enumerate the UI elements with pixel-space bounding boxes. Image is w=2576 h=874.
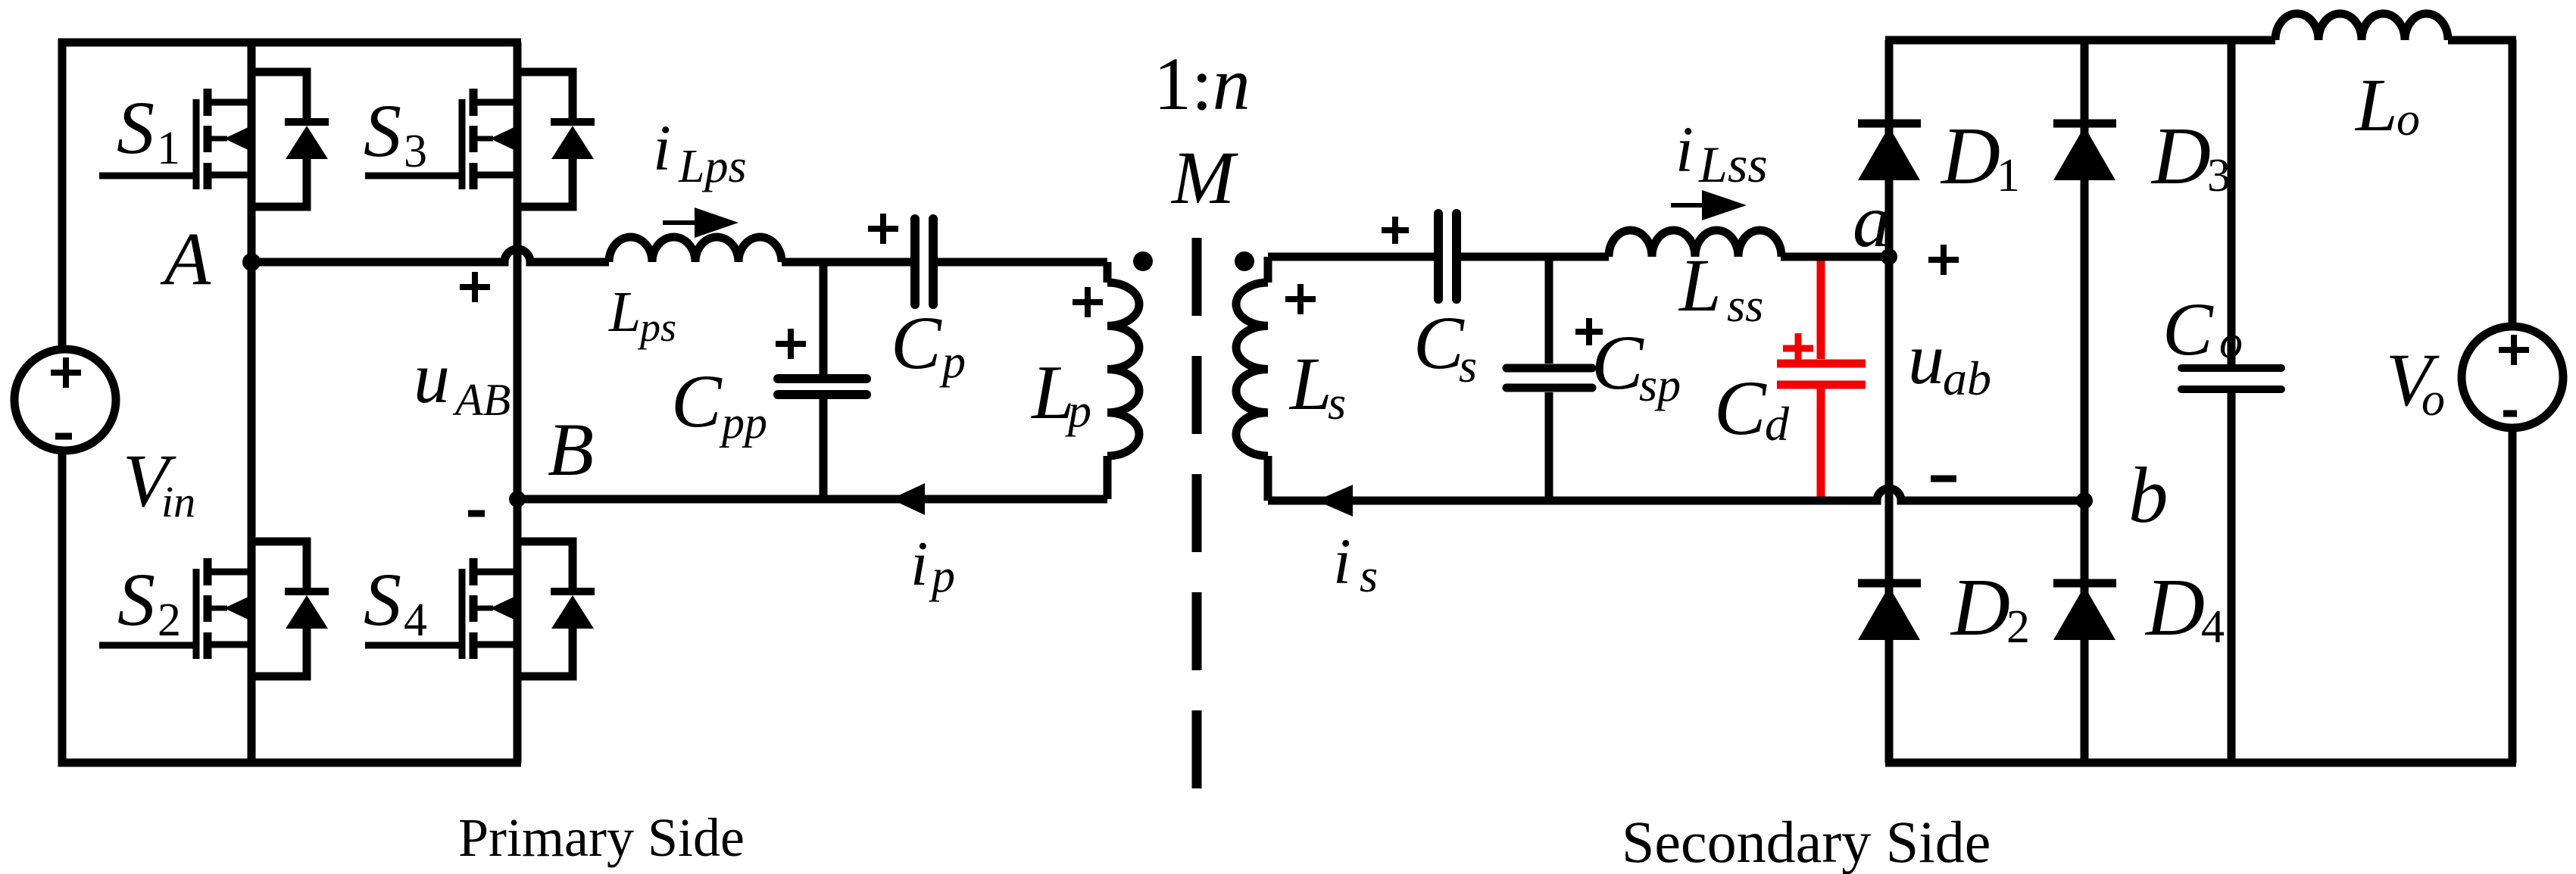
svg-text:i: i [1675, 113, 1694, 186]
svg-text:D: D [1940, 111, 2000, 201]
svg-text:S: S [364, 557, 401, 641]
svg-text:o: o [2421, 374, 2445, 426]
uAB + polarity [460, 272, 490, 302]
svg-text:C: C [1714, 365, 1767, 451]
Cp + polarity [868, 214, 898, 244]
svg-text:o: o [2219, 317, 2243, 368]
svg-text:p: p [929, 551, 955, 602]
svg-text:1: 1 [157, 123, 180, 174]
svg-text:C: C [1591, 320, 1644, 406]
svg-text:b: b [2128, 451, 2169, 539]
svg-text:A: A [160, 217, 211, 301]
transformer primary dot [1133, 251, 1153, 271]
svg-text:D: D [2150, 111, 2211, 201]
wire: node A to Lps with hop over S3 leg [251, 249, 609, 262]
voltage source Vo circle [2462, 326, 2563, 428]
svg-text:D: D [1950, 563, 2010, 653]
capacitor Cs plates [1434, 214, 1443, 299]
svg-text:AB: AB [452, 375, 511, 425]
svg-text:3: 3 [404, 126, 427, 177]
svg-text:C: C [2162, 287, 2214, 371]
node A junction dot [242, 253, 261, 271]
wire: Lss to node a [1781, 253, 1889, 261]
svg-text:M: M [1170, 136, 1238, 220]
inductor Lp transformer primary winding [1104, 262, 1112, 282]
iLss current arrow [1671, 203, 1708, 208]
transformer coupling dashed line [1192, 238, 1202, 788]
wire: input left rail top and bridge top rail [62, 42, 521, 349]
wire: D3-D4 leg [2081, 40, 2089, 763]
svg-text:sp: sp [1639, 360, 1681, 411]
svg-text:2: 2 [2006, 601, 2030, 653]
capacitor Co stem top [2228, 40, 2236, 364]
wire: rectifier top rail right of Lo [2448, 36, 2516, 45]
capacitor Cpp plates [778, 374, 866, 383]
capacitor Csp stem top [1545, 257, 1553, 364]
svg-text:ab: ab [1943, 351, 1991, 405]
svg-text:C: C [891, 301, 942, 385]
svg-text:S: S [364, 89, 401, 173]
voltage source Vin circle [14, 349, 116, 451]
uab + polarity [1928, 245, 1959, 275]
Cd + polarity (red) [1783, 333, 1813, 364]
transformer secondary dot [1235, 251, 1254, 271]
svg-text:3: 3 [2207, 150, 2231, 201]
transistor S2 MOSFET [99, 542, 329, 676]
capacitor Co plates [2181, 364, 2281, 372]
svg-text:4: 4 [2201, 601, 2225, 653]
svg-text:L: L [2354, 63, 2398, 147]
node a junction dot [1881, 248, 1897, 265]
transistor S1 MOSFET [99, 72, 329, 207]
inductor Ls transformer secondary winding [1264, 257, 1272, 282]
Vo + polarity [2499, 335, 2529, 365]
svg-text:Lss: Lss [1698, 136, 1768, 193]
Vin + polarity [51, 357, 81, 388]
svg-text:Primary Side: Primary Side [458, 807, 745, 868]
Vin - polarity [55, 433, 72, 440]
svg-text:s: s [1459, 341, 1477, 392]
capacitor Cd stem top (red) [1817, 253, 1825, 359]
svg-text:a: a [1853, 179, 1891, 263]
svg-text:o: o [2396, 94, 2420, 145]
svg-text:s: s [1328, 378, 1346, 429]
is current arrow [1316, 485, 1353, 517]
svg-text:C: C [1413, 301, 1465, 385]
transistor S3 MOSFET [365, 72, 595, 207]
diode D2 [1858, 579, 1921, 588]
svg-text:pp: pp [719, 398, 767, 448]
diode D3 [2053, 120, 2116, 128]
svg-text:u: u [414, 337, 450, 418]
svg-text:d: d [1765, 397, 1790, 451]
capacitor Csp plates [1507, 364, 1592, 373]
node B junction dot [509, 491, 526, 507]
svg-text:B: B [548, 407, 594, 492]
uAB - polarity [468, 510, 485, 517]
svg-text:i: i [653, 111, 671, 184]
capacitor Cp plates [910, 219, 920, 304]
wire: input left rail bottom and bridge bottom rail [62, 451, 521, 763]
svg-text:1:n: 1:n [1154, 42, 1251, 126]
capacitor Cpp stem bottom [820, 399, 828, 499]
wire: right rail bottom [2509, 426, 2517, 763]
svg-text:2: 2 [158, 595, 181, 646]
wire: primary bottom return B to Lp [517, 495, 1107, 504]
wire: Cs to Lss [1461, 253, 1609, 261]
transistor S4 MOSFET [365, 542, 595, 676]
svg-text:C: C [671, 359, 723, 443]
Csp + polarity [1575, 318, 1603, 345]
wire: Ls top to Cs [1268, 253, 1435, 261]
wire: Lps to Cp [782, 258, 910, 267]
Lp + polarity [1073, 287, 1103, 317]
svg-text:p: p [1065, 385, 1091, 437]
svg-text:i: i [910, 529, 928, 599]
svg-text:1: 1 [1997, 150, 2020, 201]
svg-text:4: 4 [404, 595, 427, 646]
uab - polarity [1931, 476, 1956, 482]
diode D1 [1858, 120, 1921, 128]
capacitor Cpp stem top [820, 262, 828, 374]
svg-text:Secondary Side: Secondary Side [1622, 809, 1991, 874]
capacitor Cd stem bottom (red) [1817, 389, 1825, 504]
Cs + polarity [1382, 217, 1409, 244]
svg-text:u: u [1908, 318, 1944, 399]
capacitor Csp stem bottom [1545, 392, 1553, 501]
wire: rectifier bottom rail [1885, 759, 2516, 767]
inductor Lps [609, 237, 782, 262]
node b junction dot [2076, 492, 2093, 509]
svg-text:S: S [117, 557, 155, 641]
wire: S1-S2 bridge leg [248, 42, 256, 763]
svg-text:ps: ps [637, 304, 676, 350]
capacitor Co stem bottom [2228, 392, 2236, 763]
svg-text:i: i [1333, 525, 1351, 598]
svg-text:L: L [1678, 243, 1722, 327]
diode D4 [2053, 579, 2116, 588]
inductor Lss [1609, 230, 1781, 257]
capacitor Cd plates (red) [1777, 360, 1866, 368]
Vo - polarity [2503, 410, 2517, 417]
svg-text:L: L [1288, 342, 1332, 426]
svg-text:Lps: Lps [678, 141, 747, 192]
wire: rectifier top rail [1885, 36, 2275, 45]
inductor Lo [2275, 14, 2448, 40]
wire: S3-S4 bridge leg [514, 42, 522, 763]
wire: right rail top [2509, 40, 2517, 329]
wire: D1-D2 leg [1885, 40, 1894, 763]
wire: Cp to Lp [938, 258, 1107, 267]
Ls + polarity [1285, 284, 1316, 314]
wire: secondary bottom return Ls to node b with hop over D1 leg [1268, 489, 2084, 501]
svg-text:ss: ss [1727, 280, 1763, 332]
Cpp + polarity [776, 329, 806, 359]
ip current arrow [891, 483, 925, 515]
svg-text:in: in [161, 477, 195, 526]
svg-text:p: p [939, 336, 966, 388]
svg-text:L: L [608, 280, 641, 344]
svg-text:D: D [2144, 563, 2205, 653]
iLps current arrow [663, 220, 712, 225]
svg-text:S: S [117, 86, 155, 170]
svg-text:s: s [1360, 551, 1378, 602]
